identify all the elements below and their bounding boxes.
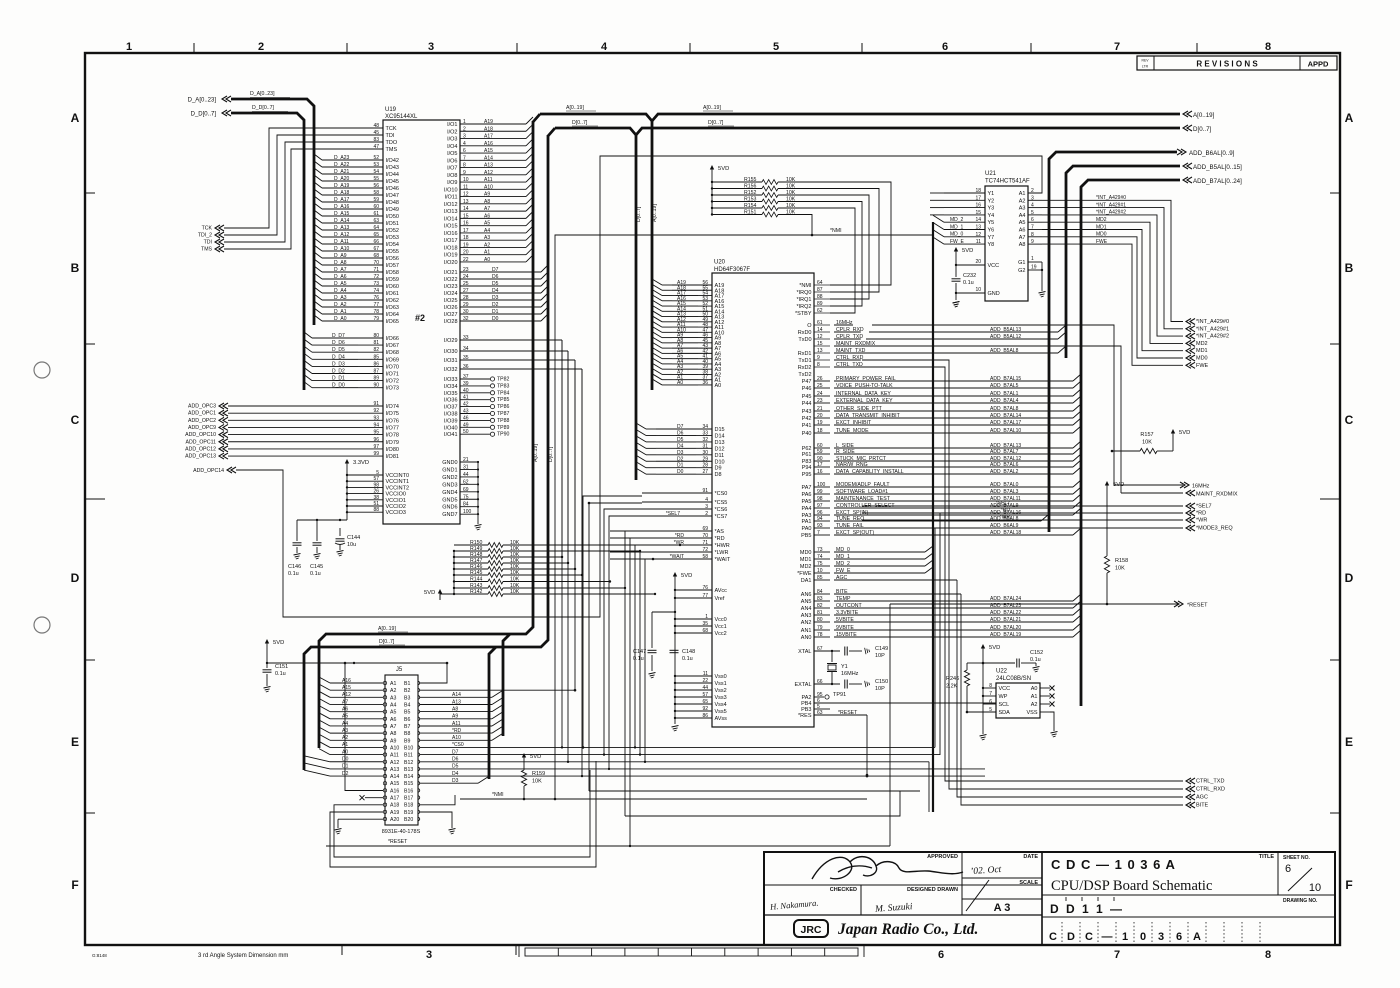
chevron connector ADD_OPC12	[185, 446, 228, 453]
svg-text:A0: A0	[484, 257, 490, 263]
svg-text:*RD: *RD	[715, 536, 725, 542]
svg-text:C144: C144	[347, 535, 360, 541]
power 5VD for U21	[954, 247, 973, 258]
svg-text:I/O67: I/O67	[386, 343, 399, 349]
power 5VD for U22	[981, 644, 1000, 655]
bus A vertical to J5	[319, 121, 539, 748]
svg-text:R153: R153	[744, 196, 757, 202]
svg-text:25: 25	[817, 383, 823, 389]
svg-text:79: 79	[817, 625, 823, 631]
svg-text:7: 7	[1114, 949, 1120, 961]
svg-text:A3: A3	[390, 695, 396, 701]
svg-text:8: 8	[989, 683, 992, 689]
svg-text:GND3: GND3	[442, 482, 457, 488]
svg-text:I/O39: I/O39	[444, 418, 457, 424]
U19 left pins D_D7..D_D0 I/O66-I/O73 with wires	[304, 332, 399, 392]
svg-text:PA1: PA1	[802, 519, 812, 525]
svg-text:62: 62	[463, 479, 469, 485]
svg-text:45: 45	[373, 130, 379, 136]
svg-text:I/O40: I/O40	[444, 425, 457, 431]
svg-text:*CS7: *CS7	[715, 514, 728, 520]
svg-text:68: 68	[702, 628, 708, 634]
svg-text:22: 22	[702, 678, 708, 684]
svg-text:*IRQ0: *IRQ0	[797, 290, 812, 296]
svg-text:C D C — 1 0 3 6 A: C D C — 1 0 3 6 A	[1051, 857, 1176, 872]
chevron connector ADD_OPC3	[188, 403, 228, 410]
svg-text:DATE: DATE	[1023, 854, 1038, 860]
svg-text:*NMI: *NMI	[830, 228, 842, 234]
title block labels	[830, 854, 1318, 904]
svg-text:B3: B3	[404, 695, 410, 701]
svg-text:*LWR: *LWR	[715, 550, 729, 556]
wires ADD_B5AL13/12/8 rows to B5AL bus	[960, 325, 1066, 354]
crystal Y1 16MHz	[827, 650, 859, 685]
svg-text:24: 24	[463, 274, 469, 280]
checked signature	[769, 898, 819, 912]
wires AGC and BITE to bottom connectors	[957, 580, 1183, 805]
svg-text:R154: R154	[744, 203, 757, 209]
svg-text:D14: D14	[715, 433, 725, 439]
svg-text:2: 2	[258, 41, 264, 53]
svg-text:D_A[0..23]: D_A[0..23]	[250, 91, 275, 97]
svg-text:10u: 10u	[347, 542, 356, 548]
svg-text:4: 4	[463, 141, 466, 147]
svg-text:98: 98	[373, 482, 379, 488]
U20 right mode pins MD0-2 FWE DA1	[797, 546, 957, 584]
svg-text:ADD_OPC2: ADD_OPC2	[188, 418, 216, 424]
svg-text:R157: R157	[1140, 432, 1153, 438]
svg-text:A14: A14	[452, 692, 461, 698]
svg-text:1: 1	[705, 614, 708, 620]
svg-text:TP83: TP83	[497, 383, 510, 389]
wire *RESET net	[890, 604, 1178, 846]
testpoint TP91	[802, 692, 847, 701]
svg-text:I/O57: I/O57	[386, 263, 399, 269]
svg-text:*SEL7: *SEL7	[666, 511, 680, 517]
svg-text:D12: D12	[715, 446, 725, 452]
svg-text:5VD: 5VD	[681, 573, 692, 579]
svg-text:R152: R152	[744, 190, 757, 196]
svg-text:A17: A17	[484, 134, 493, 140]
svg-text:B11: B11	[404, 753, 413, 759]
svg-text:RxD2: RxD2	[798, 365, 812, 371]
svg-text:I/O77: I/O77	[386, 425, 399, 431]
svg-text:A14: A14	[484, 155, 493, 161]
svg-text:ADD_OPC10: ADD_OPC10	[185, 432, 216, 438]
testpoint TP82 on U19 pin I/O33	[444, 374, 509, 383]
chevron connector ADD_OPC14	[193, 467, 236, 474]
svg-text:16: 16	[463, 221, 469, 227]
svg-text:D_D[0..7]: D_D[0..7]	[191, 111, 217, 117]
svg-text:*WR: *WR	[1000, 515, 1011, 521]
svg-text:47: 47	[373, 144, 379, 150]
svg-text:41: 41	[463, 395, 469, 401]
svg-text:*FWE: *FWE	[797, 571, 812, 577]
svg-text:84: 84	[817, 589, 823, 595]
svg-text:*INT_A429#2: *INT_A429#2	[1196, 334, 1229, 340]
svg-text:A9: A9	[484, 192, 490, 198]
svg-text:28: 28	[702, 463, 708, 469]
svg-text:I/O45: I/O45	[386, 179, 399, 185]
svg-text:TP91: TP91	[833, 692, 846, 698]
svg-text:2: 2	[705, 511, 708, 517]
svg-text:67: 67	[817, 646, 823, 652]
svg-text:23: 23	[463, 267, 469, 273]
bus ADD_B7AL vertical	[1081, 180, 1180, 706]
svg-text:98: 98	[817, 496, 823, 502]
svg-text:10K: 10K	[1142, 440, 1152, 446]
svg-text:*INT_A429#1: *INT_A429#1	[1196, 326, 1229, 332]
U21 input pins Y1-Y8	[930, 188, 994, 248]
svg-text:I/O7: I/O7	[447, 166, 457, 172]
svg-text:I/O23: I/O23	[444, 284, 457, 290]
svg-text:I/O43: I/O43	[386, 165, 399, 171]
svg-text:TP85: TP85	[497, 397, 510, 403]
chevron connector TMS	[201, 246, 224, 253]
resistor R148 10K	[453, 552, 520, 560]
svg-text:5VD: 5VD	[989, 645, 1000, 651]
ground for U21 decoupling	[953, 302, 960, 308]
U19 VCC pins with rail wire	[346, 470, 409, 516]
capacitor C147 0.1u	[633, 611, 676, 678]
svg-text:I/O32: I/O32	[444, 367, 457, 373]
svg-text:59: 59	[373, 197, 379, 203]
svg-text:D9: D9	[715, 466, 722, 472]
U20 left address pins A19..A0 with bus entries	[652, 279, 724, 389]
svg-text:I/O66: I/O66	[386, 336, 399, 342]
resistor R159 10K vertical	[521, 764, 545, 800]
svg-text:68: 68	[373, 253, 379, 259]
svg-text:6: 6	[1285, 863, 1291, 875]
svg-text:A2: A2	[1031, 702, 1038, 708]
svg-text:R145: R145	[470, 570, 483, 576]
chevron connector ADD_B5AL[0..15]	[1183, 163, 1242, 171]
testpoint TP86 on U19 pin I/O37	[444, 402, 509, 411]
net labels on U21 output wires	[1096, 195, 1126, 245]
svg-text:J5: J5	[396, 667, 403, 673]
U20 XTAL pin	[798, 646, 840, 655]
wires ADD_B7AL rows group1 to B7AL bus	[960, 374, 1081, 434]
svg-text:D10: D10	[715, 459, 725, 465]
svg-text:A14: A14	[390, 774, 399, 780]
svg-text:I/O68: I/O68	[386, 350, 399, 356]
svg-text:TMS: TMS	[386, 147, 398, 153]
svg-text:BITE: BITE	[1196, 803, 1209, 809]
svg-text:12: 12	[817, 334, 823, 340]
svg-text:F: F	[1345, 878, 1352, 892]
U19 left pins I/O74-I/O81 wires from ADD_OPC nets	[228, 401, 399, 460]
svg-text:85: 85	[817, 575, 823, 581]
svg-text:66: 66	[817, 679, 823, 685]
svg-text:GND2: GND2	[442, 475, 457, 481]
svg-text:VCCINT1: VCCINT1	[386, 479, 410, 485]
svg-text:63: 63	[373, 218, 379, 224]
svg-text:83: 83	[373, 137, 379, 143]
svg-text:*IRQ2: *IRQ2	[797, 304, 812, 310]
svg-text:3: 3	[1158, 931, 1164, 943]
svg-text:82: 82	[817, 603, 823, 609]
svg-text:11: 11	[976, 239, 981, 245]
svg-text:52: 52	[373, 155, 379, 161]
capacitor C232 0.1u	[952, 265, 977, 294]
J5 no-connect A17	[360, 795, 384, 800]
svg-text:69: 69	[463, 487, 469, 493]
svg-text:MD_2: MD_2	[950, 217, 964, 223]
resistor R146 10K	[453, 564, 520, 572]
power 5VD for pull-up network R142-150	[424, 589, 442, 600]
svg-text:29: 29	[702, 456, 708, 462]
svg-text:A6: A6	[484, 213, 490, 219]
svg-text:MD0: MD0	[1196, 356, 1208, 362]
svg-text:P46: P46	[802, 386, 812, 392]
svg-text:R155: R155	[744, 177, 757, 183]
bus D vertical to U20	[636, 135, 642, 480]
drawing code DD11	[1050, 897, 1124, 916]
U20 EXTAL pin	[794, 679, 840, 688]
svg-text:6: 6	[1176, 931, 1182, 943]
svg-text:I/O55: I/O55	[386, 249, 399, 255]
svg-text:AN2: AN2	[801, 620, 812, 626]
svg-text:I/O29: I/O29	[444, 338, 457, 344]
svg-text:8: 8	[1265, 949, 1271, 961]
svg-text:I/O80: I/O80	[386, 447, 399, 453]
svg-text:RxD0: RxD0	[798, 330, 812, 336]
svg-text:I/O56: I/O56	[386, 256, 399, 262]
svg-text:18: 18	[975, 188, 981, 194]
svg-text:R158: R158	[1115, 558, 1128, 564]
svg-text:Vss2: Vss2	[715, 688, 727, 694]
svg-text:I/O16: I/O16	[444, 231, 457, 237]
resistor R143 10K	[453, 583, 520, 591]
svg-text:A3: A3	[1019, 206, 1026, 212]
U19 left pins D_A23..D_A0 I/O42-I/O65 with wires	[314, 154, 399, 325]
svg-text:U22: U22	[996, 669, 1008, 675]
svg-text:TP88: TP88	[497, 418, 510, 424]
svg-text:D15: D15	[715, 427, 725, 433]
svg-text:3: 3	[705, 504, 708, 510]
wire VCC rail to decoupling caps	[297, 519, 347, 521]
svg-text:A10: A10	[484, 184, 493, 190]
svg-text:I/O75: I/O75	[386, 411, 399, 417]
svg-text:16: 16	[975, 203, 981, 209]
svg-text:VCCIO3: VCCIO3	[386, 510, 406, 516]
svg-text:71: 71	[702, 540, 708, 546]
svg-text:D6: D6	[492, 274, 499, 280]
svg-text:17: 17	[463, 228, 469, 234]
U20 right port P6/P8/P9 pins	[802, 443, 960, 478]
svg-text:I/O3: I/O3	[447, 137, 457, 143]
svg-text:I/O51: I/O51	[386, 221, 399, 227]
svg-text:HD64F3067F: HD64F3067F	[714, 267, 750, 273]
IC U20 HD64F3067F body	[712, 260, 814, 728]
chevron connector ADD_OPC10	[185, 432, 228, 439]
wire *NMI to J5 area	[460, 792, 867, 800]
grid column ticks bottom	[342, 945, 516, 955]
svg-text:10: 10	[975, 287, 981, 293]
chevron connector *RD with wire	[862, 508, 1206, 517]
svg-text:B7: B7	[404, 724, 410, 730]
svg-text:37: 37	[463, 374, 469, 380]
svg-text:A17: A17	[390, 796, 399, 802]
svg-text:D: D	[1345, 571, 1354, 585]
resistor R142 10K	[453, 589, 520, 597]
svg-text:11: 11	[463, 184, 468, 190]
svg-text:7: 7	[1114, 41, 1120, 53]
svg-text:C: C	[1085, 931, 1093, 943]
svg-text:B19: B19	[404, 810, 413, 816]
JRC logo	[794, 920, 828, 937]
svg-text:58: 58	[373, 190, 379, 196]
bottom margin texts	[92, 953, 288, 959]
svg-text:TCK: TCK	[202, 226, 213, 232]
svg-text:D_A[0..23]: D_A[0..23]	[188, 97, 217, 103]
wire *RES to reset net	[652, 558, 869, 777]
svg-text:A4: A4	[1019, 213, 1026, 219]
svg-text:P41: P41	[802, 423, 812, 429]
svg-text:TP82: TP82	[497, 377, 510, 383]
svg-text:B10: B10	[404, 745, 413, 751]
svg-text:5VD: 5VD	[1179, 430, 1190, 436]
svg-text:31: 31	[702, 443, 708, 449]
svg-text:17: 17	[975, 195, 981, 201]
U20 supply pins AVcc Vref Vcc0-2	[674, 583, 727, 700]
U20 right serial pins with net labels	[798, 320, 876, 378]
punch hole lower	[34, 617, 50, 633]
chevron connector *MODE3_REQ with wire	[940, 525, 1233, 532]
svg-text:Y7: Y7	[988, 235, 995, 241]
svg-text:I/O49: I/O49	[386, 207, 399, 213]
svg-text:I/O12: I/O12	[444, 202, 457, 208]
capacitor C146 0.1u	[288, 520, 302, 577]
svg-text:I/O41: I/O41	[444, 432, 457, 438]
svg-text:I/O63: I/O63	[386, 305, 399, 311]
svg-text:TP90: TP90	[497, 432, 510, 438]
svg-text:B2: B2	[404, 688, 410, 694]
svg-text:73: 73	[817, 547, 823, 553]
grid column numbers top	[126, 41, 1271, 53]
svg-text:D[0..7]: D[0..7]	[708, 120, 724, 126]
svg-text:I/O15: I/O15	[444, 224, 457, 230]
svg-text:Vss5: Vss5	[715, 709, 727, 715]
chevron connector TCK	[202, 225, 224, 232]
svg-text:—: —	[1102, 931, 1113, 943]
svg-text:71: 71	[373, 267, 379, 273]
svg-text:D[0..7]: D[0..7]	[572, 120, 588, 126]
svg-text:53: 53	[373, 162, 379, 168]
svg-text:Y6: Y6	[988, 228, 995, 234]
chevron connector MD2	[1186, 340, 1208, 347]
svg-text:5: 5	[376, 470, 379, 476]
svg-text:D5: D5	[492, 281, 499, 287]
svg-text:B8: B8	[404, 731, 410, 737]
svg-text:95: 95	[373, 430, 379, 436]
svg-text:I/O76: I/O76	[386, 418, 399, 424]
svg-text:I/O47: I/O47	[386, 193, 399, 199]
svg-text:27: 27	[463, 288, 469, 294]
svg-text:PA5: PA5	[802, 499, 812, 505]
svg-text:*WR: *WR	[1196, 518, 1207, 524]
svg-text:B4: B4	[404, 702, 410, 708]
wire *RESET at J5	[326, 798, 890, 846]
testpoint TP89 on U19 pin I/O40	[444, 422, 509, 431]
svg-text:69: 69	[702, 526, 708, 532]
svg-text:G1: G1	[1018, 260, 1025, 266]
svg-text:A1: A1	[1031, 694, 1038, 700]
svg-text:P61: P61	[802, 452, 812, 458]
svg-text:91: 91	[373, 401, 379, 407]
svg-text:92: 92	[373, 408, 379, 414]
title block frame	[764, 852, 1335, 945]
svg-text:*RD: *RD	[452, 728, 462, 734]
svg-text:VCC: VCC	[999, 686, 1011, 692]
svg-text:13: 13	[463, 199, 469, 205]
svg-text:29: 29	[463, 302, 469, 308]
svg-text:*STBY: *STBY	[795, 311, 812, 317]
svg-text:59: 59	[817, 449, 823, 455]
svg-text:A[0..19]: A[0..19]	[652, 204, 658, 222]
svg-text:A[0..19]: A[0..19]	[566, 105, 584, 111]
svg-text:O: O	[807, 323, 812, 329]
svg-text:67: 67	[373, 246, 379, 252]
svg-text:D D 1 1 —: D D 1 1 —	[1050, 902, 1124, 916]
svg-text:FW_E: FW_E	[950, 239, 965, 245]
svg-text:EXTAL: EXTAL	[794, 682, 811, 688]
svg-text:93: 93	[817, 523, 823, 529]
chevron connector *INT_A429#2	[1186, 333, 1229, 340]
svg-text:MD_0: MD_0	[950, 232, 964, 238]
svg-text:P47: P47	[802, 379, 812, 385]
chevron connector ADD_OPC1	[188, 410, 228, 417]
wire 5VD rail for pull-up network	[440, 551, 454, 600]
svg-text:30: 30	[702, 450, 708, 456]
svg-text:E: E	[71, 735, 79, 749]
svg-text:I/O2: I/O2	[447, 129, 457, 135]
J5 right side data wires	[420, 749, 489, 784]
svg-text:86: 86	[702, 713, 708, 719]
svg-text:22: 22	[463, 257, 469, 263]
svg-text:81: 81	[817, 610, 823, 616]
svg-text:57: 57	[373, 476, 379, 482]
svg-text:Y5: Y5	[988, 220, 995, 226]
svg-text:44: 44	[463, 472, 469, 478]
chevron connector TDI	[204, 239, 224, 246]
svg-text:TDO: TDO	[386, 140, 398, 146]
svg-text:D11: D11	[715, 453, 725, 459]
svg-text:TP86: TP86	[497, 404, 510, 410]
svg-text:0.1u: 0.1u	[310, 571, 321, 577]
svg-text:B12: B12	[404, 760, 413, 766]
svg-text:TMS: TMS	[201, 247, 212, 253]
svg-text:*RD: *RD	[675, 533, 685, 539]
svg-text:D[0..7]: D[0..7]	[548, 446, 554, 462]
svg-text:D8: D8	[715, 472, 722, 478]
power 5VD for U20 analog/core	[673, 572, 692, 583]
svg-text:50: 50	[463, 429, 469, 435]
svg-text:20: 20	[463, 250, 469, 256]
svg-text:*NMI: *NMI	[492, 792, 504, 798]
wire bottom horizontal rails	[420, 513, 985, 816]
svg-text:U20: U20	[714, 260, 726, 266]
svg-text:38: 38	[373, 495, 379, 501]
svg-text:TP87: TP87	[497, 411, 510, 417]
svg-text:AN3: AN3	[801, 613, 812, 619]
svg-text:57: 57	[702, 692, 708, 698]
svg-text:79: 79	[373, 316, 379, 322]
chevron connector TDI_2	[198, 232, 224, 239]
svg-text:SDA: SDA	[999, 710, 1011, 716]
svg-text:46: 46	[463, 415, 469, 421]
svg-text:I/O60: I/O60	[386, 284, 399, 290]
